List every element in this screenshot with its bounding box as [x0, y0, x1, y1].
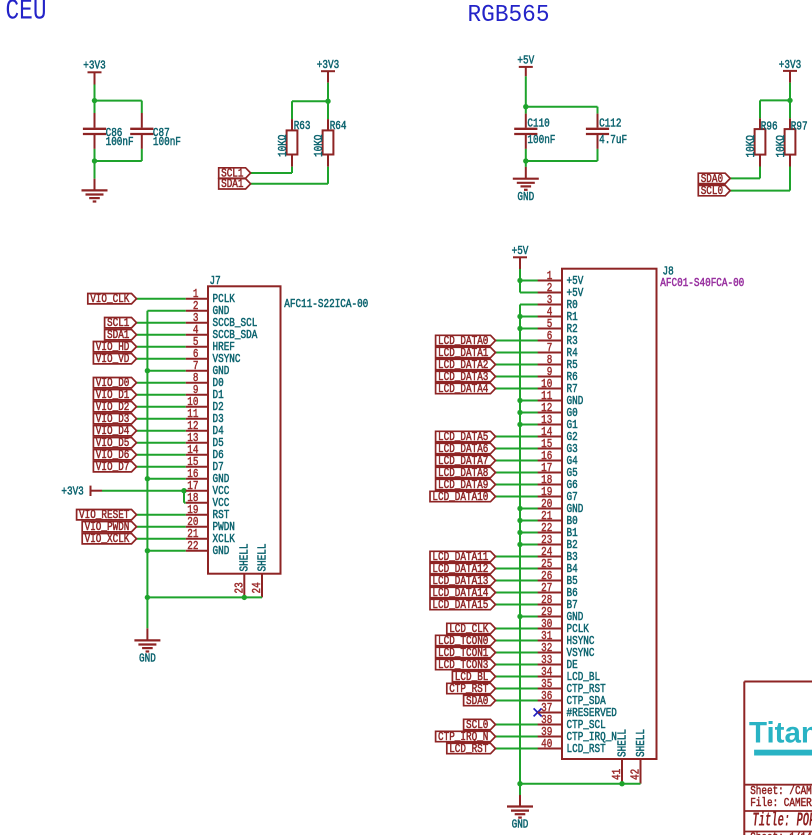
pin 25 B4: [538, 557, 578, 576]
wire: [251, 183, 328, 185]
wire: [147, 310, 185, 312]
connector J8 (AFC01-S40FCA-00): [562, 265, 674, 760]
svg-text:SHELL: SHELL: [238, 544, 252, 572]
capacitor C86: [83, 113, 134, 149]
svg-text:24: 24: [250, 582, 264, 593]
pin 31 HSYNC: [538, 629, 595, 648]
junction: [242, 595, 247, 600]
pin 35 CTP_RST: [538, 677, 606, 696]
pin 18 G6: [538, 473, 578, 492]
wire: [137, 454, 186, 456]
wire: [137, 298, 186, 300]
wire: [496, 472, 539, 474]
pin 30 PCLK: [538, 617, 590, 636]
svg-text:J7: J7: [210, 274, 221, 288]
net label VIO_PWDN: [82, 522, 136, 532]
svg-text:R96: R96: [761, 120, 778, 134]
ground GND (J7): [134, 628, 160, 665]
wire: [496, 568, 539, 570]
svg-text:VIO_CLK: VIO_CLK: [90, 292, 130, 306]
wire: [520, 280, 538, 282]
pin 38 CTP_SCL: [538, 713, 606, 732]
net label LCD_BL: [452, 671, 495, 681]
net label SCL0: [464, 719, 496, 729]
junction: [517, 506, 522, 511]
pin 8 D0: [186, 371, 224, 390]
wire: [137, 514, 186, 516]
svg-text:R64: R64: [330, 119, 347, 133]
net label LCD_TCON0: [436, 635, 496, 645]
pin 3 R0: [538, 293, 578, 312]
ground GND (J8): [507, 795, 533, 832]
svg-text:4.7uF: 4.7uF: [599, 133, 627, 147]
net label VIO_CLK: [88, 294, 137, 304]
wire: [141, 149, 143, 161]
junction: [145, 476, 150, 481]
svg-text:C110: C110: [527, 117, 549, 131]
wire: [730, 190, 790, 192]
power +3V3 flag (J7 pin17): [61, 485, 102, 499]
pin 28 B7: [538, 593, 578, 612]
net label LCD_DATA14: [430, 587, 496, 597]
net label CTP_RST: [447, 683, 496, 693]
pin 32 VSYNC: [538, 641, 595, 660]
wire: [291, 167, 293, 173]
pin 10 D2: [186, 395, 224, 414]
svg-text:VIO_VD: VIO_VD: [96, 352, 130, 366]
wire: [137, 358, 186, 360]
svg-text:SCL0: SCL0: [701, 184, 723, 198]
junction: [517, 542, 522, 547]
left GND bus wire (J7): [146, 311, 148, 629]
pin 22 B1: [538, 521, 578, 540]
pin 7 GND: [186, 359, 230, 378]
svg-text:100nF: 100nF: [153, 135, 181, 149]
wire: [137, 538, 186, 540]
pin 37 #RESERVED: [538, 701, 617, 720]
net label LCD_CLK: [447, 623, 496, 633]
wire: [141, 101, 143, 113]
net label VIO_HD: [93, 342, 136, 352]
svg-text:CEU: CEU: [6, 0, 47, 28]
pin 40 LCD_RST: [538, 737, 606, 756]
junction: [145, 548, 150, 553]
title block frame: [744, 682, 812, 835]
wire: [520, 532, 538, 534]
wire: [519, 784, 521, 795]
pin 12 G0: [538, 401, 578, 420]
wire: [102, 490, 186, 492]
junction: [517, 314, 522, 319]
svg-text:LCD_DATA15: LCD_DATA15: [432, 598, 488, 612]
svg-text:GND: GND: [512, 818, 529, 832]
wire +5V vertical: [519, 269, 521, 293]
wire: [94, 85, 96, 114]
pin 6 VSYNC: [186, 347, 241, 366]
net label LCD_DATA3: [436, 371, 496, 381]
junction: [325, 99, 330, 104]
svg-text:SHELL: SHELL: [255, 544, 269, 572]
wire: [327, 167, 329, 184]
svg-text:VIO_XCLK: VIO_XCLK: [85, 532, 131, 546]
svg-text:Sheet: 1/14: Sheet: 1/14: [750, 831, 812, 835]
pin 8 R5: [538, 353, 578, 372]
wire: [251, 172, 292, 174]
net label LCD_DATA9: [436, 479, 496, 489]
net label LCD_DATA2: [436, 359, 496, 369]
no-connect X (J8 pin37): [534, 708, 542, 716]
net label VIO_D4: [93, 426, 136, 436]
pin 4 SCCB_SDA: [186, 323, 258, 342]
wire: [496, 700, 539, 702]
wire: [496, 340, 539, 342]
pin 21 XCLK: [186, 527, 236, 546]
pin 1 PCLK: [186, 287, 236, 306]
wire: [496, 724, 539, 726]
net label LCD_DATA0: [436, 335, 496, 345]
pin 9 R6: [538, 365, 578, 384]
wire: [496, 376, 539, 378]
power +3V3 (C86/C87): [83, 59, 105, 85]
pin 33 DE: [538, 653, 578, 672]
net label VIO_XCLK: [82, 534, 136, 544]
net label VIO_D6: [93, 450, 136, 460]
net label LCD_TCON1: [436, 647, 496, 657]
pin 18 VCC: [186, 491, 230, 510]
pin 17 G5: [538, 461, 578, 480]
net label LCD_DATA8: [436, 467, 496, 477]
net label VIO_D1: [93, 390, 136, 400]
svg-text:10KΩ: 10KΩ: [774, 135, 788, 157]
pin 5 HREF: [186, 335, 235, 354]
wire: [789, 83, 791, 119]
pin 14 G2: [538, 425, 578, 444]
pin 19 G7: [538, 485, 578, 504]
pin 11 D3: [186, 407, 224, 426]
svg-text:Title: POP: Title: POP: [752, 810, 812, 832]
svg-text:42: 42: [629, 769, 643, 780]
power +3V3 (R96/R97): [779, 58, 801, 83]
wire: [496, 460, 539, 462]
wire: [137, 334, 186, 336]
net label SDA1: [105, 330, 137, 340]
wire: [496, 604, 539, 606]
wire: [526, 160, 598, 162]
net label VIO_RESET: [77, 510, 137, 520]
junction: [517, 518, 522, 523]
wire: [137, 442, 186, 444]
wire: [520, 292, 538, 294]
wire: [95, 160, 142, 162]
junction: [517, 614, 522, 619]
wire: [520, 316, 538, 318]
pin 2 +5V: [538, 281, 584, 300]
wire: [496, 676, 539, 678]
svg-text:LCD_RST: LCD_RST: [449, 742, 488, 756]
wire: [291, 101, 293, 119]
pin 14 D6: [186, 443, 224, 462]
wire: [137, 394, 186, 396]
pin 26 B5: [538, 569, 578, 588]
net label LCD_TCON3: [436, 659, 496, 669]
net label VIO_VD: [93, 354, 136, 364]
pin 36 CTP_SDA: [538, 689, 607, 708]
power +5V (J8): [512, 244, 530, 269]
wire: [496, 736, 539, 738]
pin 34 LCD_BL: [538, 665, 600, 684]
svg-text:Titan: Titan: [749, 717, 812, 750]
wire: [496, 580, 539, 582]
wire: [137, 418, 186, 420]
wire: [327, 83, 329, 119]
net label LCD_DATA4: [436, 383, 496, 393]
wire: [147, 596, 262, 598]
wire: [184, 502, 186, 504]
wire: [496, 592, 539, 594]
wire: [496, 436, 539, 438]
svg-text:C112: C112: [599, 117, 621, 131]
net label SDA1: [219, 179, 251, 189]
pin 15 D7: [186, 455, 224, 474]
junction: [523, 158, 528, 163]
wire: [137, 382, 186, 384]
svg-text:GND: GND: [213, 544, 230, 558]
svg-text:22: 22: [187, 539, 198, 553]
pin 21 B0: [538, 509, 578, 528]
wire: [789, 167, 791, 191]
net label CTP_IRQ_N: [436, 731, 496, 741]
svg-text:+3V3: +3V3: [779, 58, 801, 72]
wire: [147, 370, 185, 372]
pin 5 R2: [538, 317, 578, 336]
net label LCD_DATA15: [430, 599, 496, 609]
svg-text:SDA1: SDA1: [221, 177, 243, 191]
wire: [520, 508, 538, 510]
wire: [94, 161, 96, 179]
net label SCL1: [105, 318, 137, 328]
net label VIO_D3: [93, 414, 136, 424]
svg-text:10KΩ: 10KΩ: [276, 135, 290, 157]
pin 15 G3: [538, 437, 578, 456]
junction: [145, 595, 150, 600]
junction: [517, 410, 522, 415]
net label VIO_D2: [93, 402, 136, 412]
junction: [92, 158, 97, 163]
pin 17 VCC: [186, 479, 230, 498]
capacitor C110: [514, 114, 555, 149]
wire: [597, 107, 599, 114]
wire: [95, 100, 142, 102]
ground GND (C110): [513, 167, 539, 204]
net label LCD_DATA6: [436, 443, 496, 453]
wire: [496, 652, 539, 654]
capacitor C87: [130, 113, 181, 149]
pin 41 SHELL: [610, 729, 629, 784]
wire: [496, 748, 539, 750]
svg-text:RGB565: RGB565: [468, 2, 550, 29]
wire: [147, 478, 185, 480]
wire: [183, 491, 185, 503]
power +3V3 (R63/R64): [317, 58, 339, 83]
wire: [520, 328, 538, 330]
pin 39 CTP_IRQ_N: [538, 725, 617, 744]
svg-text:+3V3: +3V3: [317, 58, 339, 72]
junction: [619, 781, 624, 786]
ground: [82, 179, 108, 202]
svg-text:R63: R63: [294, 119, 311, 133]
pin 13 G1: [538, 413, 578, 432]
wire: [730, 177, 760, 179]
wire: [496, 628, 539, 630]
net label LCD_DATA7: [436, 455, 496, 465]
wire: [760, 99, 790, 101]
pin 4 R1: [538, 305, 578, 324]
wire: [137, 406, 186, 408]
net label LCD_DATA12: [430, 563, 496, 573]
pin 27 B6: [538, 581, 578, 600]
wire: [759, 167, 761, 179]
pin 13 D5: [186, 431, 224, 450]
junction: [517, 530, 522, 535]
junction: [517, 781, 522, 786]
svg-text:40: 40: [541, 737, 552, 751]
wire: [137, 322, 186, 324]
svg-text:10KΩ: 10KΩ: [312, 135, 326, 157]
wire: [496, 496, 539, 498]
wire: [520, 304, 538, 306]
wire: [759, 100, 761, 118]
resistor R64: [312, 119, 346, 167]
svg-text:GND: GND: [517, 190, 534, 204]
junction: [517, 398, 522, 403]
resistor R96: [744, 118, 777, 166]
wire: [520, 616, 538, 618]
pin 2 GND: [186, 299, 230, 318]
wire: [496, 448, 539, 450]
wire: [520, 424, 538, 426]
pin 20 PWDN: [186, 515, 235, 534]
svg-text:LCD_RST: LCD_RST: [567, 742, 606, 756]
pin 9 D1: [186, 383, 224, 402]
resistor R97: [774, 118, 807, 166]
junction: [523, 104, 528, 109]
svg-text:+3V3: +3V3: [83, 59, 105, 73]
pin 16 G4: [538, 449, 578, 468]
net label LCD_RST: [447, 743, 496, 753]
net label LCD_DATA5: [436, 431, 496, 441]
connector J7 (AFC11-S22ICA-00): [208, 274, 281, 574]
svg-text:+5V: +5V: [512, 244, 530, 258]
wire: [496, 388, 539, 390]
junction: [517, 278, 522, 283]
svg-text:VIO_D7: VIO_D7: [96, 460, 130, 474]
svg-text:41: 41: [610, 769, 624, 780]
pin 29 GND: [538, 605, 584, 624]
wire: [496, 484, 539, 486]
wire: [496, 688, 539, 690]
wire: [520, 520, 538, 522]
net label SCL0: [698, 185, 730, 195]
svg-text:R97: R97: [791, 120, 808, 134]
wire: [137, 430, 186, 432]
wire: [496, 556, 539, 558]
net label VIO_D5: [93, 438, 136, 448]
pin 42 SHELL: [629, 729, 648, 784]
net label VIO_D7: [93, 462, 136, 472]
capacitor C112: [586, 114, 627, 149]
junction: [787, 98, 792, 103]
svg-text:AFC11-S22ICA-00: AFC11-S22ICA-00: [284, 297, 368, 311]
net label LCD_DATA13: [430, 575, 496, 585]
pin 6 R3: [538, 329, 578, 348]
pin 3 SCCB_SCL: [186, 311, 257, 330]
wire: [137, 526, 186, 528]
junction: [517, 422, 522, 427]
pin 12 D4: [186, 419, 224, 438]
GND bus wire (J8): [519, 305, 521, 784]
pin 24 SHELL: [250, 544, 269, 598]
svg-text:100nF: 100nF: [527, 133, 555, 147]
junction: [517, 326, 522, 331]
svg-text:LCD_DATA4: LCD_DATA4: [438, 382, 488, 396]
wire: [147, 550, 185, 552]
net label LCD_DATA11: [430, 551, 496, 561]
pin 24 B3: [538, 545, 578, 564]
net label SCL1: [219, 168, 251, 178]
net label SDA0: [698, 173, 730, 183]
net label SDA0: [464, 695, 496, 705]
pin 1 +5V: [538, 269, 584, 288]
wire: [520, 544, 538, 546]
wire: [520, 783, 641, 785]
wire: [597, 149, 599, 161]
svg-text:SDA0: SDA0: [466, 694, 488, 708]
junction: [92, 98, 97, 103]
net label LCD_DATA10: [430, 491, 496, 501]
wire: [94, 149, 96, 161]
svg-text:SHELL: SHELL: [634, 729, 648, 757]
Titan logo: [749, 717, 812, 756]
wire: [137, 346, 186, 348]
pin 11 GND: [538, 389, 584, 408]
wire: [520, 412, 538, 414]
pin 23 B2: [538, 533, 578, 552]
pin 22 GND: [186, 539, 230, 558]
svg-text:LCD_DATA10: LCD_DATA10: [432, 490, 488, 504]
pin 19 RST: [186, 503, 230, 522]
wire: [526, 106, 598, 108]
svg-text:+5V: +5V: [517, 53, 535, 67]
net label VIO_D0: [93, 378, 136, 388]
svg-text:File: CAMERA.sch: File: CAMERA.sch: [750, 796, 812, 810]
wire: [496, 664, 539, 666]
wire: [292, 100, 328, 102]
pin 16 GND: [186, 467, 230, 486]
pin 20 GND: [538, 497, 584, 516]
wire: [525, 76, 527, 113]
svg-text:23: 23: [232, 582, 246, 593]
wire: [496, 352, 539, 354]
junction: [181, 488, 186, 493]
wire: [525, 149, 527, 167]
net label LCD_DATA1: [436, 347, 496, 357]
svg-text:+3V3: +3V3: [61, 485, 83, 499]
wire: [496, 640, 539, 642]
svg-text:AFC01-S40FCA-00: AFC01-S40FCA-00: [660, 276, 744, 290]
svg-text:GND: GND: [139, 652, 156, 666]
pin 7 R4: [538, 341, 578, 360]
resistor R63: [276, 119, 310, 167]
